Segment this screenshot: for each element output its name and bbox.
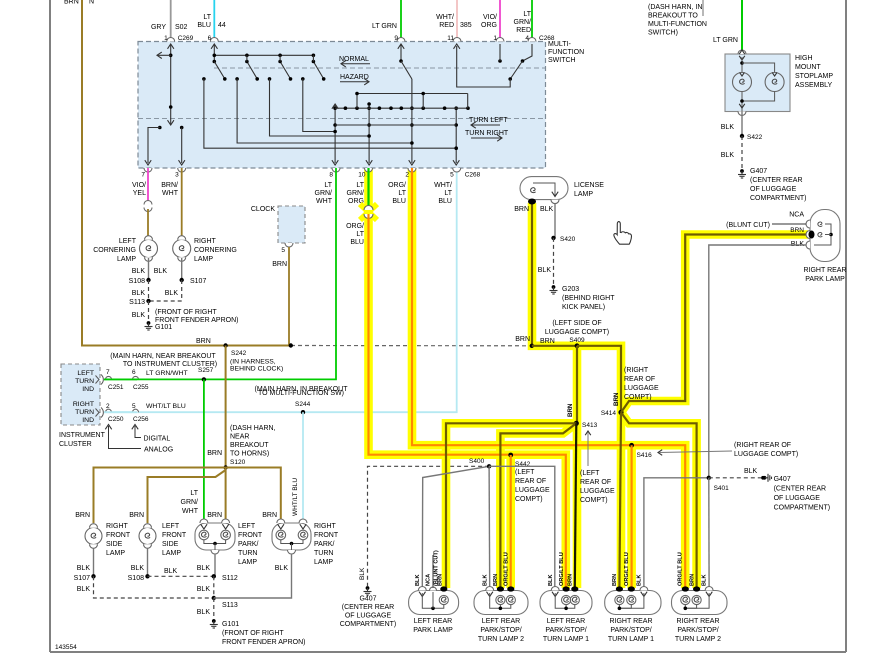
wire BLK dashed S107 down xyxy=(77,576,214,598)
splice S414 xyxy=(601,410,624,417)
svg-text:LAMP: LAMP xyxy=(238,559,257,566)
svg-text:BRN: BRN xyxy=(129,512,144,519)
svg-text:(RIGHT: (RIGHT xyxy=(624,367,649,374)
wire VIO/YEL xyxy=(147,168,149,203)
svg-text:5: 5 xyxy=(281,247,285,254)
splice S120 xyxy=(223,459,245,470)
right front park/turn lamp xyxy=(272,519,311,554)
svg-text:C255: C255 xyxy=(133,384,149,391)
svg-text:S113: S113 xyxy=(222,602,238,609)
wire BRN to S409 xyxy=(532,345,577,347)
label GRY S02 xyxy=(151,24,188,31)
svg-text:ORG/: ORG/ xyxy=(346,223,364,230)
svg-text:LAMP: LAMP xyxy=(106,550,125,557)
label ORG/LT BLU pin2 xyxy=(388,182,407,205)
svg-text:7: 7 xyxy=(106,369,110,376)
svg-text:385: 385 xyxy=(460,22,472,29)
svg-text:BLU: BLU xyxy=(392,198,406,205)
svg-text:TO MULTI-FUNCTION SW): TO MULTI-FUNCTION SW) xyxy=(258,390,344,397)
label HIGH MOUNT STOPLAMP ASSEMBLY xyxy=(795,55,833,89)
svg-text:BREAKOUT: BREAKOUT xyxy=(230,442,269,449)
svg-text:5: 5 xyxy=(450,172,454,179)
svg-text:BLK: BLK xyxy=(538,267,552,274)
label BRN BLK license xyxy=(514,206,553,213)
svg-text:COMPARTMENT): COMPARTMENT) xyxy=(340,621,397,628)
clock wire junction xyxy=(289,343,293,347)
svg-text:RED: RED xyxy=(439,22,454,29)
svg-text:PARK/: PARK/ xyxy=(314,541,335,548)
svg-text:BRN: BRN xyxy=(515,336,530,343)
left front park/turn lamp xyxy=(195,519,235,554)
wire WHT/RED pin11 xyxy=(456,0,458,42)
svg-text:PARK/: PARK/ xyxy=(238,541,259,548)
svg-text:N: N xyxy=(89,0,94,6)
junction license BRN dashed xyxy=(515,336,555,348)
svg-text:G407: G407 xyxy=(750,168,767,175)
svg-text:(LEFT: (LEFT xyxy=(515,469,535,476)
svg-text:MOUNT: MOUNT xyxy=(795,64,821,71)
annotation LEFT REAR OF LUGGAGE COMPT S413 xyxy=(580,431,615,504)
label INSTRUMENT CLUSTER xyxy=(59,432,106,448)
svg-text:MULTI-: MULTI- xyxy=(548,41,571,48)
svg-text:LT: LT xyxy=(356,182,364,189)
svg-text:(LEFT SIDE OF: (LEFT SIDE OF xyxy=(552,320,601,327)
svg-text:S112: S112 xyxy=(222,575,238,582)
splice S400 xyxy=(469,458,491,468)
label LICENSE LAMP xyxy=(574,182,604,198)
wire BLK dashed S401 to G407 xyxy=(709,468,761,478)
svg-text:(RIGHT REAR OF: (RIGHT REAR OF xyxy=(734,442,791,449)
label LT GRN/RED top xyxy=(514,11,532,34)
label LT GRN stoplamp xyxy=(713,37,738,44)
vertical labels left rear lamp 2 xyxy=(483,552,510,586)
svg-text:(DASH HARN, IN: (DASH HARN, IN xyxy=(648,4,702,11)
svg-text:C250: C250 xyxy=(108,416,124,423)
svg-text:TO HORNS): TO HORNS) xyxy=(230,451,269,458)
svg-text:HIGH: HIGH xyxy=(795,55,813,62)
svg-text:PARK LAMP: PARK LAMP xyxy=(413,627,453,634)
svg-text:S400: S400 xyxy=(469,458,485,465)
wire LT GRN/WHT down to lamp xyxy=(203,379,205,523)
label BRN left front park xyxy=(207,512,222,519)
svg-text:LEFT REAR: LEFT REAR xyxy=(547,618,585,625)
svg-text:INSTRUMENT: INSTRUMENT xyxy=(59,432,106,439)
wire ORG/LT BLU pin2 run xyxy=(412,168,685,588)
svg-text:GRN/: GRN/ xyxy=(347,190,365,197)
svg-text:SWITCH: SWITCH xyxy=(548,57,576,64)
label TURN RIGHT with arrow xyxy=(465,130,509,141)
frame left border xyxy=(49,0,51,652)
left cornering lamp xyxy=(140,236,158,262)
svg-text:(BLUNT CUT): (BLUNT CUT) xyxy=(726,222,770,229)
svg-text:RIGHT REAR: RIGHT REAR xyxy=(609,618,652,625)
svg-text:BRN: BRN xyxy=(567,403,574,417)
label BRN S242 run xyxy=(196,338,211,345)
MFS top pin connectors xyxy=(164,35,555,42)
svg-text:S416: S416 xyxy=(637,452,653,459)
svg-text:BLK: BLK xyxy=(275,565,289,572)
vertical labels right rear lamp 2 xyxy=(678,552,708,586)
svg-text:BLU: BLU xyxy=(350,239,364,246)
svg-text:S401: S401 xyxy=(714,485,730,492)
svg-text:BLK: BLK xyxy=(637,575,643,587)
svg-text:TURN: TURN xyxy=(238,550,257,557)
svg-text:FRONT: FRONT xyxy=(314,532,339,539)
right turn indicator xyxy=(73,401,104,424)
label WHT/LT BLU cluster xyxy=(146,403,186,410)
wire BRN S413 to left rear park lamp xyxy=(446,423,576,588)
ground G203 xyxy=(550,285,616,311)
svg-text:TURN LAMP 1: TURN LAMP 1 xyxy=(543,636,589,643)
svg-text:VIO/: VIO/ xyxy=(132,182,146,189)
svg-text:BLK: BLK xyxy=(540,206,554,213)
svg-text:(FRONT OF RIGHT: (FRONT OF RIGHT xyxy=(222,630,284,637)
svg-text:CORNERING: CORNERING xyxy=(194,247,237,254)
svg-text:SIDE: SIDE xyxy=(106,541,123,548)
svg-text:3: 3 xyxy=(175,172,179,179)
label BRN vertical S414 xyxy=(613,392,620,406)
svg-text:(CENTER REAR: (CENTER REAR xyxy=(750,177,803,184)
wire NCA blunt cut stub xyxy=(432,555,434,588)
svg-text:LEFT REAR: LEFT REAR xyxy=(414,618,452,625)
svg-text:ORG/LT BLU: ORG/LT BLU xyxy=(504,552,510,586)
label BRN right front side xyxy=(75,512,90,519)
svg-text:TURN: TURN xyxy=(75,409,94,416)
svg-text:IND: IND xyxy=(82,417,94,424)
svg-text:NEAR: NEAR xyxy=(230,434,249,441)
svg-text:LAMP: LAMP xyxy=(314,559,333,566)
svg-text:BRN: BRN xyxy=(438,574,444,586)
left rear park/stop/turn lamp 1 xyxy=(540,586,592,614)
svg-text:(FRONT OF RIGHT: (FRONT OF RIGHT xyxy=(155,309,217,316)
label HAZARD with arrow xyxy=(340,74,369,85)
svg-text:LT: LT xyxy=(190,490,198,497)
svg-text:ASSEMBLY: ASSEMBLY xyxy=(795,82,833,89)
instrument cluster body xyxy=(61,364,100,425)
ground G101 left xyxy=(145,309,239,331)
MFS bottom pin connectors xyxy=(141,168,480,179)
svg-text:BRN: BRN xyxy=(262,512,277,519)
svg-text:GRN/: GRN/ xyxy=(181,499,199,506)
svg-text:MULTI-FUNCTION: MULTI-FUNCTION xyxy=(648,21,707,28)
wire BRN/WHT right cornering xyxy=(181,168,183,239)
svg-text:S108: S108 xyxy=(128,575,144,582)
splice S442 xyxy=(508,453,530,468)
splice S413 xyxy=(574,421,598,429)
vertical labels right rear lamp 1 xyxy=(612,552,643,586)
splice S108 cornering xyxy=(129,278,151,285)
ground G101 front xyxy=(210,619,306,646)
svg-text:BLK: BLK xyxy=(132,268,146,275)
multi-function switch divider dashes xyxy=(138,68,545,119)
svg-text:WHT: WHT xyxy=(162,190,179,197)
svg-text:S244: S244 xyxy=(295,401,311,408)
svg-text:ORG: ORG xyxy=(481,22,497,29)
svg-text:LEFT: LEFT xyxy=(119,238,137,245)
svg-text:LT: LT xyxy=(356,231,364,238)
svg-text:C269: C269 xyxy=(178,35,194,42)
svg-text:CLUSTER: CLUSTER xyxy=(59,441,92,448)
svg-text:RIGHT: RIGHT xyxy=(314,523,337,530)
wire BLK right front park to S113 xyxy=(214,554,292,598)
multi-function switch body xyxy=(138,42,546,169)
svg-text:LAMP: LAMP xyxy=(162,550,181,557)
svg-text:LT: LT xyxy=(398,190,406,197)
wire BLK dashed S108-S113 xyxy=(132,280,149,301)
label MAIN HARN MFS garbled note xyxy=(255,386,349,397)
svg-text:(IN HARNESS,: (IN HARNESS, xyxy=(230,359,276,366)
wire BRN S120 down branch xyxy=(225,468,227,524)
wire BLK dashed S422-G407 xyxy=(721,136,742,169)
cluster pin 7 C251 xyxy=(106,369,124,391)
label LT GRN/WHT vertical xyxy=(181,490,199,515)
splice S401 xyxy=(707,476,730,492)
svg-text:C268: C268 xyxy=(465,172,481,179)
svg-text:11: 11 xyxy=(447,35,454,42)
label LEFT FRONT PARK/TURN LAMP xyxy=(238,523,263,566)
svg-text:BLK: BLK xyxy=(483,575,489,587)
splice S107 front xyxy=(74,574,96,582)
left front side lamp xyxy=(139,524,156,549)
svg-text:TURN LAMP 2: TURN LAMP 2 xyxy=(478,636,524,643)
ground G407 stoplamp xyxy=(738,168,807,202)
wire LT GRN/WHT from pin8 xyxy=(104,168,336,379)
svg-text:10: 10 xyxy=(358,172,366,179)
wire BRN S409 to S413 xyxy=(576,346,578,424)
splice S409 xyxy=(575,343,580,348)
vertical labels left rear lamp 1 xyxy=(548,552,574,586)
svg-text:7: 7 xyxy=(141,172,145,179)
svg-text:S120: S120 xyxy=(230,459,246,466)
right cornering lamp xyxy=(173,236,191,262)
svg-text:ORG/LT BLU: ORG/LT BLU xyxy=(559,552,565,586)
svg-text:SWITCH): SWITCH) xyxy=(648,30,678,37)
splice S107 cornering xyxy=(180,278,207,285)
svg-text:STOPLAMP: STOPLAMP xyxy=(795,73,833,80)
svg-text:BRN: BRN xyxy=(207,512,222,519)
svg-text:CLOCK: CLOCK xyxy=(251,206,275,213)
svg-text:LAMP: LAMP xyxy=(194,256,213,263)
wire BLK right front side xyxy=(77,548,94,576)
svg-text:143554: 143554 xyxy=(55,644,77,651)
wire LT GRN/RED pin4 xyxy=(531,0,533,42)
inline connector pin10 wire xyxy=(360,204,377,220)
svg-text:G407: G407 xyxy=(359,596,376,603)
svg-text:LEFT REAR: LEFT REAR xyxy=(482,618,520,625)
label LT GRN/ORG pin10 xyxy=(347,182,365,205)
blunt cut annotation park lamp xyxy=(726,222,806,229)
diagram number 143554 xyxy=(55,644,77,651)
svg-text:(DASH HARN,: (DASH HARN, xyxy=(230,425,276,432)
svg-text:TURN RIGHT: TURN RIGHT xyxy=(465,130,509,137)
svg-text:RIGHT: RIGHT xyxy=(106,523,129,530)
svg-text:REAR OF: REAR OF xyxy=(515,478,546,485)
svg-text:BLK: BLK xyxy=(77,586,91,593)
right rear park/stop/turn lamp 1 xyxy=(605,586,661,614)
svg-text:GRN/: GRN/ xyxy=(514,19,532,26)
svg-text:TURN: TURN xyxy=(75,378,94,385)
svg-text:COMPT): COMPT) xyxy=(580,497,608,504)
label TURN LEFT with arrow xyxy=(469,117,508,128)
label RIGHT CORNERING LAMP xyxy=(194,238,237,263)
svg-text:BRN: BRN xyxy=(75,512,90,519)
svg-text:CORNERING: CORNERING xyxy=(93,247,136,254)
svg-text:COMPARTMENT): COMPARTMENT) xyxy=(750,195,807,202)
svg-text:C256: C256 xyxy=(133,416,149,423)
label LEFT REAR PARK LAMP xyxy=(413,618,453,634)
svg-text:BLK: BLK xyxy=(197,586,211,593)
label LEFT REAR PARK/STOP/TURN LAMP 1 xyxy=(543,618,589,643)
svg-text:ORG/: ORG/ xyxy=(388,182,406,189)
label RIGHT FRONT SIDE LAMP xyxy=(106,523,131,557)
wire BLK stoplamp down xyxy=(721,111,742,136)
svg-text:BRN: BRN xyxy=(196,338,211,345)
svg-text:LUGGAGE: LUGGAGE xyxy=(580,488,615,495)
svg-text:BLK: BLK xyxy=(77,565,91,572)
wire BLK S400 to lamp2 xyxy=(488,466,491,588)
svg-text:BLU: BLU xyxy=(197,22,211,29)
label RIGHT REAR PARK/STOP/TURN LAMP 1 xyxy=(608,618,654,643)
svg-text:S113: S113 xyxy=(129,299,145,306)
svg-text:S107: S107 xyxy=(190,278,206,285)
multi-function switch internal contacts xyxy=(145,44,532,165)
label ORG/LT BLU below connector xyxy=(346,223,365,246)
wire BRN clock down xyxy=(288,247,290,346)
svg-text:DIGITAL: DIGITAL xyxy=(144,436,171,443)
svg-text:S108: S108 xyxy=(129,278,145,285)
svg-text:GRN/: GRN/ xyxy=(315,190,333,197)
svg-text:HAZARD: HAZARD xyxy=(340,74,369,81)
svg-text:2: 2 xyxy=(405,172,409,179)
mouse cursor hand xyxy=(614,222,632,245)
label DASH HARN breakout note xyxy=(648,4,707,37)
svg-text:BLK: BLK xyxy=(548,575,554,587)
wire link cluster row2 xyxy=(104,411,137,413)
svg-text:1: 1 xyxy=(164,35,168,42)
wire LT GRN/ORG pin10 upper xyxy=(367,168,369,209)
svg-text:WHT: WHT xyxy=(182,508,199,515)
svg-text:WHT/: WHT/ xyxy=(434,182,452,189)
svg-text:BLK: BLK xyxy=(132,290,146,297)
svg-text:BLK: BLK xyxy=(132,312,146,319)
wire BRN license lamp down xyxy=(531,203,533,346)
svg-text:PARK/STOP/: PARK/STOP/ xyxy=(677,627,718,634)
right rear park/stop/turn lamp 2 xyxy=(672,586,728,614)
svg-text:LT GRN: LT GRN xyxy=(372,23,397,30)
cluster pin 5 C256 xyxy=(132,403,149,423)
ground G407 right xyxy=(761,474,830,512)
svg-text:RIGHT: RIGHT xyxy=(194,238,217,245)
left rear park/stop/turn lamp 2 xyxy=(474,586,528,614)
svg-text:BLK: BLK xyxy=(165,290,179,297)
svg-text:RIGHT: RIGHT xyxy=(73,401,94,408)
svg-text:BRN: BRN xyxy=(690,574,696,586)
svg-text:6: 6 xyxy=(132,369,136,376)
svg-text:OF LUGGAGE: OF LUGGAGE xyxy=(774,495,821,502)
svg-text:BRN: BRN xyxy=(514,206,529,213)
highlight trace yellow overlay xyxy=(369,168,809,588)
label VIO/YEL xyxy=(132,182,146,197)
label RIGHT REAR PARK LAMP xyxy=(803,267,846,283)
svg-text:S242: S242 xyxy=(231,350,247,357)
svg-text:S257: S257 xyxy=(198,367,214,374)
svg-text:BLU: BLU xyxy=(438,198,452,205)
svg-text:LT: LT xyxy=(324,182,332,189)
splice S112 xyxy=(212,574,238,582)
wire BRN S409 to S414 xyxy=(577,346,621,413)
wire BLK dashed S420-G203 xyxy=(538,238,554,286)
svg-text:BRN/: BRN/ xyxy=(161,182,178,189)
svg-text:S420: S420 xyxy=(560,236,576,243)
svg-text:PARK/STOP/: PARK/STOP/ xyxy=(610,627,651,634)
svg-text:LEFT: LEFT xyxy=(238,523,256,530)
splice S244 xyxy=(295,401,311,414)
label BRN left front side xyxy=(129,512,144,519)
label BRN cut off top edge xyxy=(64,0,94,6)
wire BLK left rear park lamp xyxy=(422,466,489,588)
frame bottom border xyxy=(50,651,846,653)
splice S420 xyxy=(551,236,575,243)
wire BRN S120 diag branch xyxy=(148,470,226,523)
wire VIO/ORG pin1b xyxy=(499,0,501,42)
svg-text:FRONT FENDER APRON): FRONT FENDER APRON) xyxy=(222,639,306,646)
svg-text:WHT/LT BLU: WHT/LT BLU xyxy=(146,403,186,410)
wire BRN S242 to S120 xyxy=(225,346,227,468)
svg-text:BLK: BLK xyxy=(721,152,735,159)
wire BLK left front side xyxy=(131,548,148,576)
svg-text:BLK: BLK xyxy=(154,268,168,275)
label MAIN HARN instrument cluster note xyxy=(110,353,217,368)
splice S242 xyxy=(223,343,283,372)
svg-text:WHT/LT BLU: WHT/LT BLU xyxy=(292,478,299,516)
svg-text:G407: G407 xyxy=(774,476,791,483)
wire BRN S414 to right rear park lamp xyxy=(621,235,808,413)
wire ORG/LT BLU S442 branch xyxy=(510,455,512,588)
label RIGHT FRONT PARK/TURN LAMP xyxy=(314,523,339,566)
label LEFT SIDE OF LUGGAGE COMPT xyxy=(545,320,609,344)
svg-text:BRN: BRN xyxy=(64,0,79,6)
svg-text:ORG/LT BLU: ORG/LT BLU xyxy=(678,552,684,586)
svg-text:SIDE: SIDE xyxy=(162,541,179,548)
svg-text:RED: RED xyxy=(516,27,531,34)
annotation RIGHT REAR OF LUGGAGE COMPT S416 xyxy=(658,442,798,458)
svg-text:VIO/: VIO/ xyxy=(483,14,497,21)
svg-text:BRN: BRN xyxy=(272,261,287,268)
wire BLK right lamp1 to S401 xyxy=(644,478,709,588)
svg-text:ANALOG: ANALOG xyxy=(144,447,173,454)
label LEFT REAR PARK/STOP/TURN LAMP 2 xyxy=(478,618,524,643)
wire link cluster row1 xyxy=(104,378,137,380)
svg-text:RIGHT REAR: RIGHT REAR xyxy=(803,267,846,274)
svg-text:S409: S409 xyxy=(569,337,585,344)
svg-text:BLK: BLK xyxy=(131,565,145,572)
splice S108 front xyxy=(128,574,150,582)
wire stub top right xyxy=(702,0,704,16)
svg-text:BRN: BRN xyxy=(612,574,618,586)
svg-text:NCA: NCA xyxy=(426,574,432,586)
svg-text:YEL: YEL xyxy=(133,190,146,197)
svg-text:LEFT: LEFT xyxy=(162,523,180,530)
label LT BLU 44 xyxy=(197,14,226,29)
wire BRN main left xyxy=(82,0,291,346)
svg-text:BRN: BRN xyxy=(790,227,804,234)
wire BLK dashed S108-S112 xyxy=(148,568,214,576)
cluster pin 6 C255 xyxy=(132,369,149,391)
frame right border xyxy=(845,0,847,652)
right front side lamp xyxy=(85,524,102,549)
svg-text:WHT: WHT xyxy=(316,198,333,205)
svg-text:GRY: GRY xyxy=(151,24,166,31)
